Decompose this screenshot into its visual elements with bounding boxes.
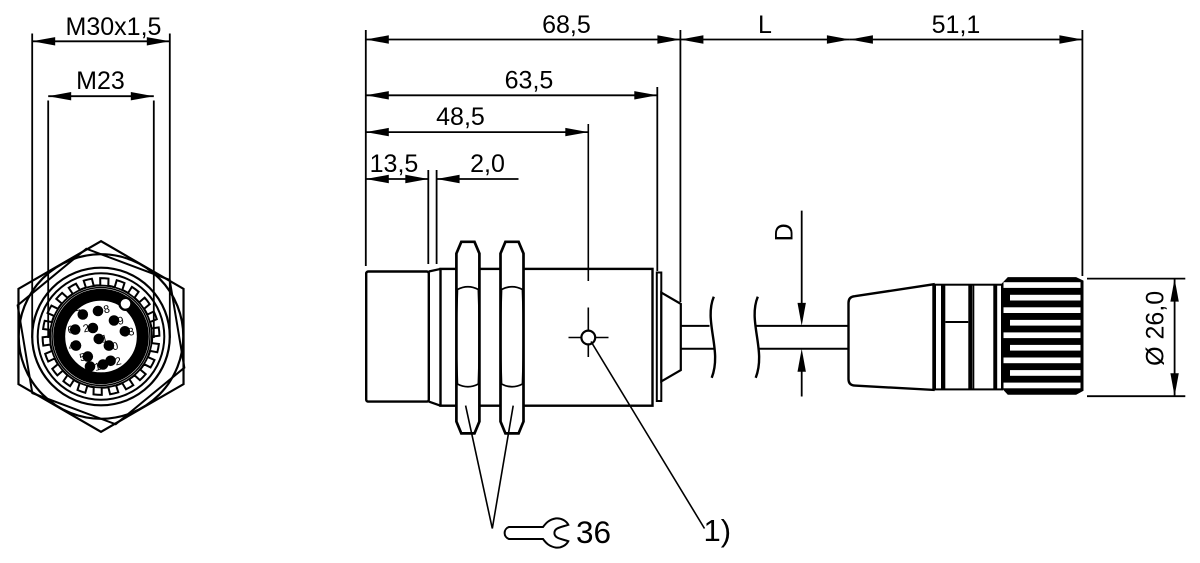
svg-text:2,0: 2,0 <box>470 150 505 178</box>
leader lines to lock nuts <box>466 406 514 529</box>
front view hex nut outline <box>18 241 183 432</box>
front view connector pins with numbers <box>66 303 135 374</box>
connector ring section <box>935 285 1002 390</box>
extension line diameter 26 top <box>1087 278 1185 280</box>
front view M30 thread circle <box>32 268 170 406</box>
extension line 68,5 / L <box>679 30 681 302</box>
dimension 51,1 <box>850 39 1083 41</box>
dimension M30x1,5 <box>32 40 170 42</box>
lock nut 1 <box>456 242 479 434</box>
dimension 68,5 <box>366 39 681 41</box>
connector strain relief boot <box>849 284 934 390</box>
svg-text:Ø 26,0: Ø 26,0 <box>1142 291 1170 366</box>
cable segment 1 <box>681 325 710 327</box>
sensor threaded body <box>441 269 653 406</box>
body end disc <box>657 273 662 402</box>
front view connector knurl teeth <box>43 278 160 395</box>
front view thread inner circle <box>38 273 165 400</box>
front view connector seal ring (black) <box>59 295 143 379</box>
svg-text:M23: M23 <box>76 67 125 95</box>
svg-text:36: 36 <box>576 514 611 550</box>
dimension 13,5 <box>366 178 429 180</box>
svg-text:13,5: 13,5 <box>370 150 419 178</box>
front view knurl base circle <box>50 286 152 388</box>
cable gland <box>661 293 681 382</box>
front view rear hex nut outline (rotated) <box>18 249 185 425</box>
dimension 63,5 <box>366 94 658 96</box>
extension line diameter 26 bottom <box>1087 395 1185 397</box>
dimension L <box>680 39 850 41</box>
extension lines 13,5 / 2,0 <box>427 170 429 264</box>
lock nut 2 <box>501 242 524 434</box>
front view insert face <box>65 301 136 372</box>
leader line to LED <box>591 342 705 529</box>
extension line 63,5 <box>656 87 658 271</box>
front view coupling ring circle <box>52 288 150 386</box>
dimension M23 <box>48 95 154 97</box>
svg-text:M30x1,5: M30x1,5 <box>66 13 162 41</box>
cable break line 2 <box>755 297 760 378</box>
svg-text:D: D <box>771 223 799 241</box>
thread chamfer collar <box>429 269 441 406</box>
cable break line 1 <box>711 297 716 378</box>
wrench symbol SW36 <box>505 518 569 547</box>
extension line M23 right <box>153 101 155 339</box>
front view nut turned circle <box>19 254 184 419</box>
svg-text:1): 1) <box>704 513 732 548</box>
extension line M30 right <box>169 34 171 339</box>
extension line sensor face <box>365 30 367 266</box>
svg-text:63,5: 63,5 <box>505 67 554 95</box>
extension line M30 left <box>31 34 33 339</box>
cable segment 2 <box>756 325 849 327</box>
sensor sensing head <box>366 272 429 402</box>
dimension 2,0 <box>437 178 519 180</box>
connector knurled grip <box>1002 278 1083 395</box>
extension line M23 left <box>47 101 49 339</box>
front view keyway notch <box>120 298 132 310</box>
LED centerline <box>587 124 589 281</box>
svg-text:48,5: 48,5 <box>436 103 485 131</box>
svg-text:L: L <box>758 11 772 39</box>
svg-text:68,5: 68,5 <box>542 11 591 39</box>
extension line 51,1 right <box>1081 30 1083 276</box>
LED indicator <box>581 331 595 345</box>
dimension 48,5 <box>366 131 589 133</box>
svg-text:51,1: 51,1 <box>932 11 981 39</box>
dimension D <box>801 211 803 304</box>
dimension diameter 26,0 <box>1174 279 1176 397</box>
